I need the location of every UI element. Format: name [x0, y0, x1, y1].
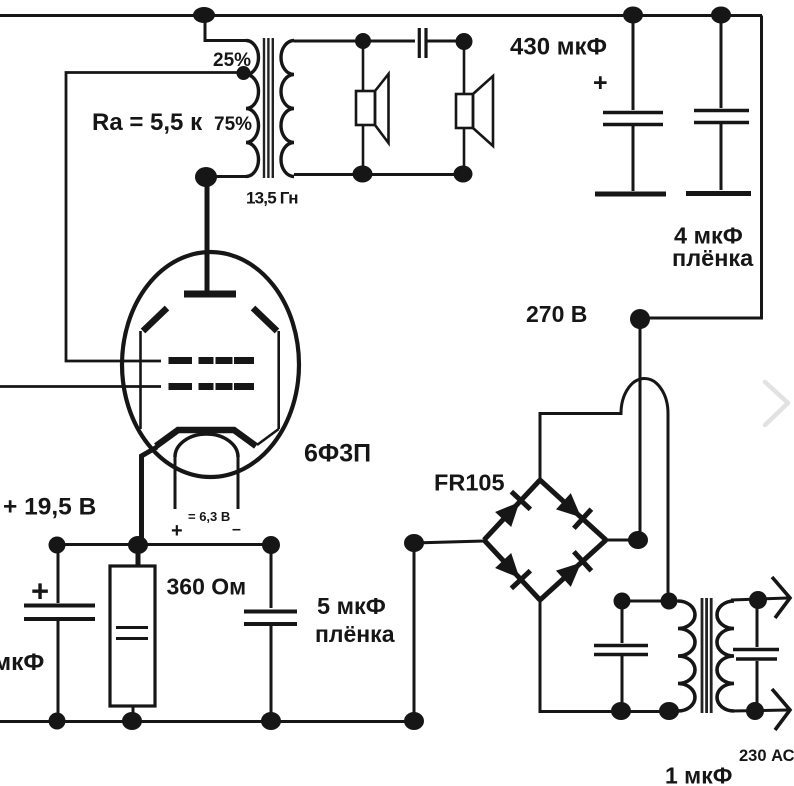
tube heater lead minus: [237, 457, 240, 509]
capacitor C mains: [733, 601, 779, 710]
wire PT secondary top: [731, 598, 788, 600]
node cathode row left: [49, 537, 66, 554]
capacitor C cathode electrolytic: [24, 545, 95, 721]
svg-text:13,5 Гн: 13,5 Гн: [246, 189, 298, 208]
wire feedback from 25% tap: [66, 73, 243, 362]
svg-text:5 мкФ: 5 мкФ: [317, 593, 386, 619]
tube cathode hat: [156, 430, 256, 446]
svg-text:6Ф3П: 6Ф3П: [304, 440, 371, 468]
svg-text:25%: 25%: [213, 50, 251, 71]
wire secondary bottom: [294, 173, 463, 176]
node speaker1 bottom: [353, 166, 373, 183]
wire grid 2 lead from left edge: [0, 385, 161, 388]
capacitor crossover top: [419, 28, 426, 58]
node 270V junction: [630, 309, 650, 329]
node anode junction big dot: [195, 167, 217, 187]
diode D4 bottom-right: [555, 552, 592, 589]
svg-text:плёнка: плёнка: [672, 245, 754, 271]
svg-text:= 6,3 В: = 6,3 В: [188, 509, 230, 524]
bridge rectifier FR105 diamond: [484, 480, 606, 600]
transformer T2 core: [702, 598, 711, 713]
node ground 5uF: [261, 712, 281, 730]
speaker LS1: [356, 41, 389, 174]
wire bridge plus to 270V: [606, 539, 640, 542]
node 25% tap: [237, 66, 251, 80]
node mains bottom: [746, 702, 764, 720]
wire cap to speaker2 top: [426, 40, 464, 43]
arrow carousel chevron: [765, 382, 788, 425]
node cathode row middle: [128, 536, 148, 554]
svg-text:+ 19,5 В: + 19,5 В: [3, 494, 96, 521]
wire OT primary top lead: [205, 16, 246, 41]
tube heater lead plus: [174, 457, 177, 509]
transformer T2 secondary winding: [717, 601, 734, 711]
node mains top: [749, 591, 767, 609]
node speaker2 bottom: [454, 166, 473, 183]
capacitor C 5uF film: [244, 545, 297, 721]
node top-rail OT junction: [193, 7, 215, 23]
wire 270V down to bridge plus: [639, 318, 642, 540]
wire OT primary bottom lead: [206, 175, 246, 178]
wire anode lead: [205, 177, 210, 292]
tube grid 2 dashes: [169, 383, 255, 390]
capacitor C 430uF electrolytic: [595, 15, 666, 194]
wire right rail down from top: [640, 16, 762, 319]
svg-text:75%: 75%: [214, 114, 252, 135]
svg-text:плёнка: плёнка: [315, 621, 395, 647]
diode D1 top-left: [494, 492, 531, 529]
node ground bridge minus: [404, 712, 424, 730]
node bridge plus: [628, 531, 648, 549]
node 430uF top: [623, 7, 643, 24]
svg-text:1 мкФ: 1 мкФ: [665, 763, 732, 786]
tube heater dome: [175, 434, 238, 457]
tube grid 1 dashes: [169, 357, 255, 364]
speaker LS2: [456, 41, 493, 174]
arrow mains bottom: [772, 689, 790, 730]
diode D3 bottom-left: [494, 552, 531, 589]
svg-text:FR105: FR105: [434, 470, 505, 496]
wire PT primary top: [622, 600, 678, 603]
transformer T2 primary winding: [678, 601, 695, 711]
node cathode row right: [262, 536, 280, 554]
wire bridge minus lead: [414, 541, 484, 721]
node speaker1 top: [355, 33, 371, 49]
wire cathode row: [57, 543, 271, 546]
svg-text:–: –: [232, 521, 241, 538]
wire PT secondary bottom: [731, 710, 788, 711]
wire bridge AC bottom: [540, 600, 678, 712]
svg-text:270 В: 270 В: [526, 301, 587, 327]
diode D2 top-right: [555, 492, 592, 529]
svg-text:230 АС: 230 АС: [739, 747, 794, 765]
tube beam plate left: [141, 308, 168, 429]
wire cathode lead: [142, 447, 158, 545]
tube beam plate right: [253, 308, 279, 445]
transformer T1 core: [264, 38, 273, 178]
node ground cap: [49, 713, 66, 730]
svg-text:+: +: [593, 69, 608, 97]
node 1uF bottom: [611, 702, 631, 720]
wire bridge AC top with hop: [540, 379, 668, 601]
node speaker2 top: [456, 33, 473, 50]
node 4uF top: [711, 7, 731, 24]
svg-text:430 мкФ: 430 мкФ: [510, 34, 607, 61]
tube anode plate bar: [184, 291, 236, 298]
svg-text:Ra = 5,5 к: Ra = 5,5 к: [92, 109, 203, 136]
transformer T1 secondary winding: [281, 41, 294, 177]
capacitor C 1uF: [594, 601, 648, 711]
svg-text:+: +: [171, 520, 183, 542]
svg-text:мкФ: мкФ: [0, 649, 44, 676]
capacitor C 4uF film: [686, 15, 751, 194]
node PT primary top: [661, 593, 678, 610]
arrow mains top: [772, 577, 790, 618]
wire top B+ rail: [0, 14, 762, 17]
node ground resistor: [122, 712, 142, 730]
resistor R 360 Ohm: [110, 545, 155, 721]
node 1uF top: [614, 593, 631, 610]
svg-text:360 Ом: 360 Ом: [167, 574, 247, 600]
tube V1 envelope: [122, 252, 299, 477]
wire bottom ground rail: [0, 720, 414, 723]
node bridge minus: [404, 534, 424, 552]
wire secondary top to speakers: [294, 40, 415, 43]
transformer T1 primary winding: [246, 41, 259, 177]
svg-text:+: +: [31, 574, 49, 609]
node PT primary bottom: [659, 702, 679, 720]
